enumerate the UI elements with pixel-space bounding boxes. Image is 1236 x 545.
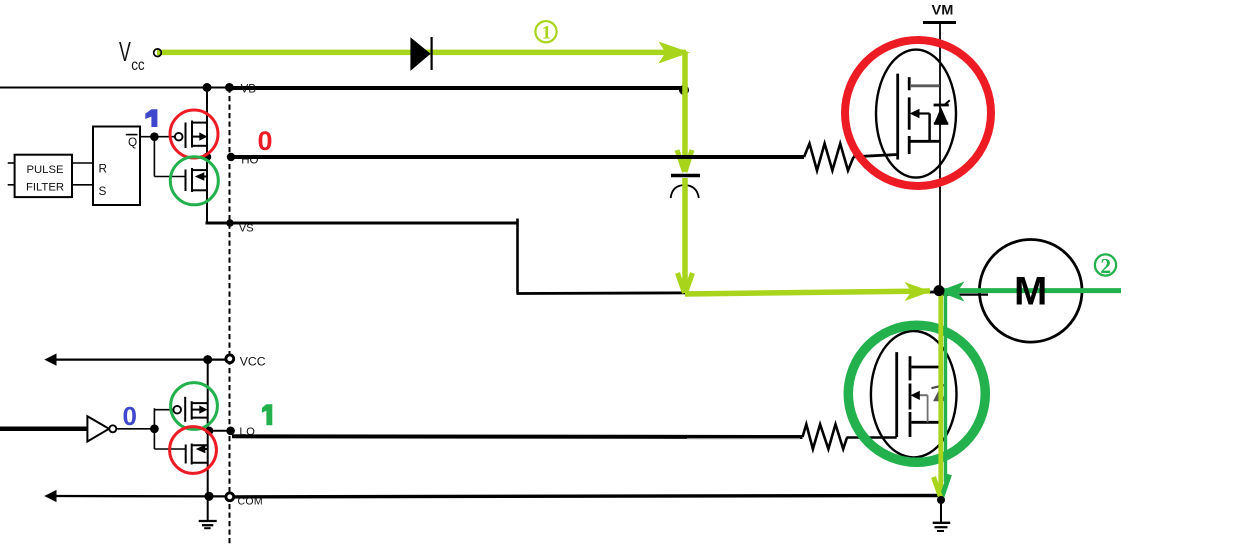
svg-text:VB: VB (241, 84, 257, 96)
svg-text:0: 0 (258, 126, 273, 156)
svg-text:1: 1 (542, 22, 552, 43)
svg-text:PULSE: PULSE (26, 164, 64, 176)
svg-text:VS: VS (239, 222, 254, 234)
svg-text:LO: LO (239, 426, 255, 438)
svg-text:0: 0 (123, 401, 137, 431)
svg-text:S: S (99, 184, 107, 198)
svg-text:VM: VM (932, 3, 954, 18)
svg-text:2: 2 (1100, 254, 1111, 278)
svg-text:COM: COM (238, 496, 263, 508)
svg-text:M: M (1014, 270, 1047, 314)
svg-text:VCC: VCC (240, 354, 266, 368)
svg-text:R: R (99, 162, 108, 176)
svg-text:Q: Q (128, 135, 137, 149)
svg-text:FILTER: FILTER (26, 182, 64, 194)
svg-text:V: V (119, 36, 131, 67)
svg-text:cc: cc (131, 57, 144, 74)
